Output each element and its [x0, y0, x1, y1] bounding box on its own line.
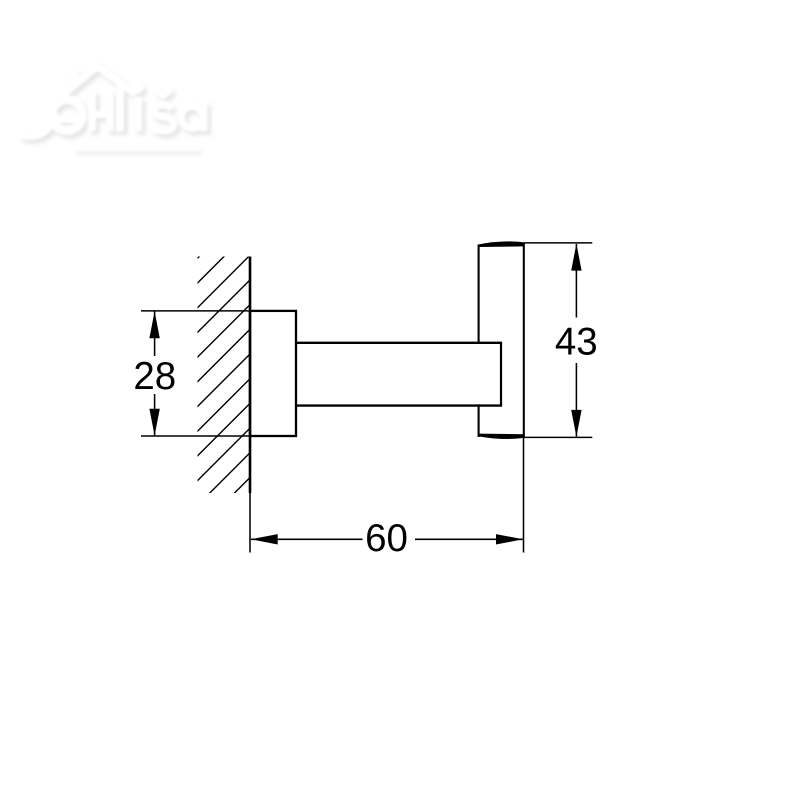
arm top edge [297, 342, 503, 344]
dim 43 extension top [524, 242, 592, 244]
dim 43 line lower [575, 363, 577, 437]
svg-text:43: 43 [555, 321, 598, 364]
hook knob body [479, 244, 524, 438]
dim 28 extension line top [141, 310, 250, 312]
dim 43 arrow up [571, 244, 581, 271]
knob right edge [523, 243, 525, 438]
wall hatching [190, 206, 250, 587]
wall line [249, 257, 252, 494]
svg-text:60: 60 [365, 517, 408, 560]
dim 28 extension line bottom [141, 435, 250, 437]
dim 28 arrow up [149, 311, 159, 338]
dim 60 arrow left [251, 534, 278, 544]
dim 60 line right [415, 538, 523, 540]
hook arm [298, 344, 500, 405]
dim 28 line upper [154, 312, 156, 357]
wall mounting plate [250, 311, 296, 436]
arm bottom edge [297, 404, 503, 406]
dim 60 extension right [523, 438, 525, 553]
knob bottom cap [478, 434, 524, 439]
dim 43 extension bottom [524, 436, 592, 438]
arm right edge [500, 343, 502, 406]
dim 60 line left [251, 538, 363, 540]
svg-text:28: 28 [133, 355, 176, 398]
dim 28 line lower [154, 394, 156, 436]
dim 28 arrow down [149, 409, 159, 436]
dim 43 line upper [575, 244, 577, 318]
dim 60 extension left [249, 493, 251, 553]
dim 43 arrow down [571, 410, 581, 437]
dim 60 arrow right [496, 534, 523, 544]
knob left edge [478, 245, 480, 438]
knob top cap [478, 241, 524, 247]
watermark eHisa logo (embossed, very light) [24, 70, 212, 154]
